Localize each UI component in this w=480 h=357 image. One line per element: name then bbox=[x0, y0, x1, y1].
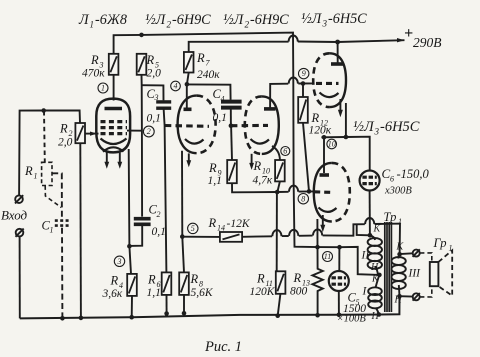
wire: C2 bottom jog to cathode line bbox=[129, 224, 142, 246]
wire: branch to C3 bbox=[142, 85, 164, 100]
svg-text:120К: 120К bbox=[250, 286, 276, 298]
svg-text:1: 1 bbox=[90, 20, 95, 30]
winding II bbox=[370, 235, 375, 240]
svg-text:R: R bbox=[24, 164, 33, 178]
wire: rail to tube D anode bbox=[337, 42, 339, 63]
svg-text:8: 8 bbox=[301, 194, 305, 203]
tube D anode bar bbox=[331, 62, 343, 66]
tube C anode bar bbox=[264, 107, 276, 111]
svg-text:-150,0: -150,0 bbox=[397, 167, 430, 181]
tube E top bar bbox=[320, 173, 330, 177]
R1 wiper bbox=[52, 173, 62, 218]
tube D cathode arc bbox=[320, 93, 339, 98]
svg-text:9: 9 bbox=[302, 69, 306, 78]
svg-text:2: 2 bbox=[245, 20, 250, 30]
node 2 bbox=[143, 126, 154, 137]
svg-text:5: 5 bbox=[191, 224, 195, 233]
svg-text:R: R bbox=[311, 111, 320, 125]
svg-text:1: 1 bbox=[34, 172, 38, 181]
svg-text:1: 1 bbox=[101, 84, 105, 93]
capacitor C3 bbox=[156, 102, 171, 108]
wire: R7 bottom to node 4 bbox=[187, 73, 189, 85]
wire: R12 bottom to wire1 bbox=[303, 123, 309, 192]
resistor R7 bbox=[184, 52, 194, 73]
resistor R5 bbox=[137, 54, 147, 75]
resistor R8 bbox=[179, 272, 189, 295]
tube A bottom inner arc bbox=[103, 147, 124, 151]
resistor R10 bbox=[275, 160, 285, 181]
wire: lower input down to ground bus bbox=[19, 237, 21, 319]
svg-text:Рис. 1: Рис. 1 bbox=[204, 339, 242, 355]
tube D cathode arrow stub bbox=[339, 99, 341, 113]
node 5 bbox=[188, 223, 198, 233]
svg-text:Тр: Тр bbox=[384, 210, 397, 224]
wire: node 9 down to R12 bbox=[302, 84, 304, 97]
svg-text:½Л: ½Л bbox=[223, 12, 245, 28]
svg-text:3,6к: 3,6к bbox=[102, 288, 123, 300]
tube E grid dashes bbox=[314, 190, 331, 194]
svg-text:10: 10 bbox=[328, 140, 336, 149]
input terminal upper bbox=[15, 195, 23, 203]
wire: cathode junction to C5 and transformer tap bbox=[318, 247, 380, 275]
tube B grid dashes bbox=[165, 124, 209, 128]
tube A top-cap bar bbox=[105, 107, 123, 110]
node 4 bbox=[171, 81, 181, 91]
svg-text:R: R bbox=[293, 271, 302, 285]
svg-text:1: 1 bbox=[449, 244, 453, 253]
svg-text:II: II bbox=[361, 250, 371, 262]
resistor R14 (horizontal box) bbox=[220, 232, 242, 242]
svg-text:R: R bbox=[146, 53, 155, 67]
wire: branch down to winding II K bbox=[357, 224, 370, 235]
svg-text:3: 3 bbox=[374, 127, 380, 137]
tube C cathode arc bbox=[251, 139, 270, 144]
winding III bbox=[397, 252, 402, 257]
svg-text:4: 4 bbox=[174, 82, 178, 91]
svg-text:-6Ж8: -6Ж8 bbox=[95, 12, 127, 28]
tube B anode lead up to node 4 bbox=[186, 84, 188, 109]
speaker Gr1 bbox=[430, 262, 439, 286]
wire: upper input up and across to R1/R2 bbox=[19, 110, 80, 195]
wire2: node 5 to R14 bbox=[182, 236, 220, 238]
resistor R3 bbox=[109, 54, 119, 75]
wire2: R14 to transformer, with hops bbox=[242, 235, 272, 238]
capacitor C2 bbox=[134, 219, 151, 225]
svg-text:11: 11 bbox=[324, 252, 331, 261]
tube A cathode arc bbox=[101, 139, 127, 145]
svg-text:120к: 120к bbox=[309, 125, 332, 137]
svg-text:6: 6 bbox=[283, 147, 287, 156]
ground bus bbox=[20, 296, 400, 318]
svg-text:0,1: 0,1 bbox=[152, 226, 166, 238]
svg-text:6: 6 bbox=[390, 175, 394, 184]
svg-text:5,6К: 5,6К bbox=[191, 287, 214, 299]
node 11 bbox=[323, 252, 333, 262]
wire: tube E cathode line down bbox=[316, 219, 318, 247]
svg-text:Вход: Вход bbox=[1, 208, 28, 223]
wire: decoupled supply line A (R3/R5 tops to follower output descent) bbox=[114, 33, 295, 232]
tube D grid dashes bbox=[316, 82, 339, 85]
svg-text:R: R bbox=[147, 273, 156, 287]
junction R5 top bbox=[139, 33, 144, 38]
wire: R9 top lead from grid junction bbox=[230, 126, 233, 160]
tube C envelope (dashed left, solid right) bbox=[245, 96, 262, 153]
svg-text:R: R bbox=[59, 122, 68, 136]
svg-text:R: R bbox=[190, 272, 199, 286]
wire: descent continues to cathode-junction corner bbox=[294, 232, 317, 247]
tube E cathode arrow stub bbox=[322, 215, 324, 228]
svg-text:R: R bbox=[196, 51, 205, 65]
wire: node5 line continues to R8 bbox=[182, 237, 184, 273]
svg-text:Н: Н bbox=[370, 262, 379, 273]
wire: grid arrow into tube A bbox=[85, 133, 99, 135]
node 6 bbox=[281, 147, 290, 156]
capacitor C5 (electrolytic) bbox=[338, 247, 340, 271]
wire: R4 bottom to bus bbox=[131, 296, 133, 317]
junction tube D anode on rail bbox=[335, 40, 340, 45]
resistor R2 bbox=[75, 123, 85, 143]
resistor R12 bbox=[298, 97, 308, 123]
capacitor C6 (electrolytic, in line) bbox=[360, 171, 380, 191]
svg-text:3: 3 bbox=[322, 19, 328, 29]
tube E cathode arc bbox=[319, 208, 337, 212]
resistor R4 bbox=[127, 274, 137, 296]
svg-text:0,1: 0,1 bbox=[213, 112, 227, 124]
wire: C4 bottom to grid junction of tube C bbox=[230, 108, 232, 126]
svg-text:R: R bbox=[208, 216, 217, 230]
tube C heater leg arrow bbox=[251, 154, 253, 166]
wire: R2 bottom to bus bbox=[79, 143, 82, 318]
wire1: R9/R10 bottoms to tube E grid bbox=[232, 183, 277, 192]
svg-text:½Л: ½Л bbox=[353, 119, 375, 135]
wire: C1 down to bus (dashed) bbox=[61, 228, 63, 319]
svg-text:Гр: Гр bbox=[433, 236, 447, 250]
arrowhead +290V bbox=[397, 38, 405, 42]
svg-text:R: R bbox=[208, 161, 217, 175]
svg-text:800: 800 bbox=[290, 286, 308, 298]
svg-text:-6Н9С: -6Н9С bbox=[172, 12, 211, 28]
svg-text:Л: Л bbox=[78, 12, 90, 28]
capacitor C1 (dotted plates) bbox=[55, 221, 70, 226]
svg-text:R: R bbox=[90, 53, 99, 67]
node 9 bbox=[299, 68, 309, 78]
resistor R11 bbox=[276, 271, 286, 294]
svg-text:+: + bbox=[404, 25, 413, 42]
tube E envelope (solid left, dashed right) bbox=[314, 163, 332, 222]
svg-text:3: 3 bbox=[117, 257, 122, 266]
svg-text:4,7к: 4,7к bbox=[253, 175, 273, 187]
tube B cathode arc bbox=[185, 139, 204, 144]
tube B anode bar bbox=[184, 108, 192, 112]
speaker Gr1 wiring (dashed) bbox=[420, 253, 432, 262]
wire: tube D cathode exit down to node 10 wire bbox=[345, 103, 347, 137]
svg-text:-6Н5С: -6Н5С bbox=[380, 119, 420, 135]
svg-text:1: 1 bbox=[50, 226, 54, 235]
wire: winding III to output terminals bbox=[400, 252, 413, 255]
resistor R9 bbox=[227, 160, 237, 183]
svg-text:R: R bbox=[253, 159, 262, 173]
svg-text:1: 1 bbox=[398, 217, 402, 226]
tube A heater legs with arrows bbox=[107, 152, 120, 165]
tube C cathode exit to R10 bbox=[272, 146, 280, 160]
node 1 bbox=[98, 83, 108, 93]
resistor R13 (zigzag) bbox=[312, 247, 322, 315]
wire: node 4 to C4 bbox=[187, 84, 231, 99]
svg-text:470к: 470к bbox=[82, 68, 105, 80]
node 10 bbox=[327, 139, 337, 149]
svg-text:290В: 290В bbox=[413, 35, 442, 50]
svg-text:14: 14 bbox=[217, 224, 225, 233]
svg-text:-6Н9С: -6Н9С bbox=[250, 12, 289, 28]
svg-text:-12К: -12К bbox=[227, 218, 251, 230]
svg-text:2: 2 bbox=[157, 210, 161, 219]
wire: anode line R5 bottom down through node 2 to C2 bbox=[141, 75, 144, 217]
wire: +290V rail from R7 top to arrow bbox=[189, 42, 289, 52]
wire: node 10 branch into tube E top bbox=[323, 137, 325, 173]
svg-text:2,0: 2,0 bbox=[58, 137, 73, 149]
resistor R6 bbox=[162, 272, 172, 295]
wire: R3 bottom to tube A top cap bbox=[113, 75, 115, 101]
input terminal lower bbox=[16, 229, 24, 237]
svg-text:0,1: 0,1 bbox=[147, 113, 161, 125]
svg-text:2: 2 bbox=[167, 20, 172, 30]
svg-text:R: R bbox=[110, 274, 119, 288]
svg-text:х300В: х300В bbox=[384, 186, 412, 197]
tube C grid dashes bbox=[231, 124, 268, 127]
svg-text:R: R bbox=[256, 272, 265, 286]
svg-text:½Л: ½Л bbox=[301, 11, 323, 27]
tube A grid rows bbox=[101, 122, 128, 134]
wire: C3 line down to grid of tube B and R6 bbox=[164, 108, 167, 272]
tube B envelope (half solid half dashed) bbox=[178, 96, 197, 154]
svg-text:1,1: 1,1 bbox=[208, 175, 222, 187]
svg-text:2,0: 2,0 bbox=[147, 68, 162, 80]
svg-text:2: 2 bbox=[147, 127, 151, 136]
wire: tube C anode up and over to node 9 (hops descent) bbox=[270, 84, 288, 109]
capacitor C4 bbox=[221, 102, 242, 108]
wire: R11 top lead down from wire1 bbox=[276, 192, 278, 271]
tube B heater leg arrow bbox=[188, 153, 190, 162]
svg-text:½Л: ½Л bbox=[145, 12, 167, 28]
tube A anode link to node 2 bbox=[127, 130, 142, 132]
svg-text:1,1: 1,1 bbox=[147, 287, 161, 299]
tube B cathode exit to node 5 line bbox=[181, 151, 183, 237]
svg-text:III: III bbox=[408, 268, 422, 280]
svg-text:-6Н5С: -6Н5С bbox=[328, 11, 367, 27]
resistor R1 (volume pot, dashed as external) bbox=[43, 111, 46, 162]
svg-text:240к: 240к bbox=[197, 69, 220, 81]
tube D envelope (dashed left, solid right) bbox=[313, 53, 329, 107]
node 3 bbox=[114, 256, 124, 266]
wire: node 10 horizontal, C6 corner bbox=[321, 137, 369, 171]
node 8 bbox=[298, 194, 308, 204]
tube A (pentode L1-6Zh8) envelope bbox=[96, 99, 130, 153]
svg-text:4: 4 bbox=[221, 95, 225, 104]
transformer Tr1 core bbox=[385, 222, 392, 312]
wire: tube A cathode down to R4 bbox=[129, 149, 131, 274]
svg-text:3: 3 bbox=[154, 93, 159, 102]
